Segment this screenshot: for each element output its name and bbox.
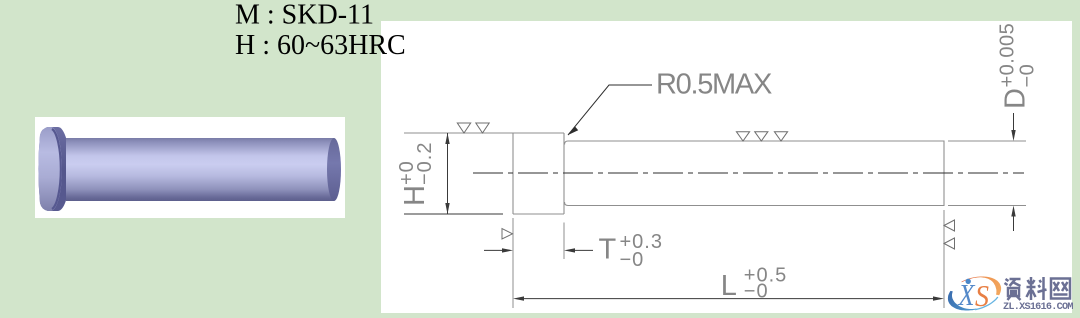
head silhouette (dark back/rim) [38,127,70,211]
svg-text:M : SKD-11: M : SKD-11 [235,0,374,31]
end ellipse [327,138,341,201]
leader R0.5MAX [568,85,652,135]
T extension lines [512,218,514,308]
svg-text:T: T [599,234,617,266]
3D pin [38,127,341,211]
svg-text:H : 60~63HRC: H : 60~63HRC [235,30,406,61]
svg-text:−0.2: −0.2 [414,142,436,185]
wang [1051,279,1070,299]
liao [1027,277,1047,300]
white panel left (3D image) [35,117,345,218]
svg-text:ZL.XS1616.COM: ZL.XS1616.COM [1003,302,1073,313]
surface marks on body top [736,132,787,141]
ellipse ring: blue crescent [948,291,977,311]
marks on right extension [944,220,955,249]
svg-text:R0.5MAX: R0.5MAX [656,68,772,100]
body outline with fillets [565,141,945,206]
H extension lines [404,132,513,134]
L dimension [524,298,933,300]
svg-text:L: L [721,270,737,302]
T arrows [484,249,502,251]
ellipse ring: orange crescent [961,277,1001,296]
H dimension line [447,133,449,214]
svg-text:S: S [975,278,989,313]
surface marks on H top line [457,123,489,133]
D extension lines [948,141,1026,206]
watermark logo [948,277,1073,314]
2D drawing [404,85,1026,308]
head face edge dark arc [52,129,61,209]
zi [1005,279,1021,300]
L right extension [943,210,945,308]
svg-text:+0.005: +0.005 [997,23,1019,88]
svg-text:H: H [399,185,431,206]
datum triangle right-pointing [502,229,513,240]
svg-text:−0: −0 [620,249,645,271]
D dimension arrows [1013,113,1015,130]
CAD texts [396,23,1039,303]
white panel right (drawing) [381,21,1072,313]
chinese chars [1005,277,1071,300]
body [66,138,334,201]
svg-text:−0: −0 [744,281,769,303]
thin light-blue arc bottom-right [975,297,998,310]
head front face [38,127,62,211]
centerline [473,172,1024,174]
svg-text:−0: −0 [1017,64,1039,88]
pin outline: head rect [513,133,564,214]
svg-text:D: D [1000,88,1032,109]
